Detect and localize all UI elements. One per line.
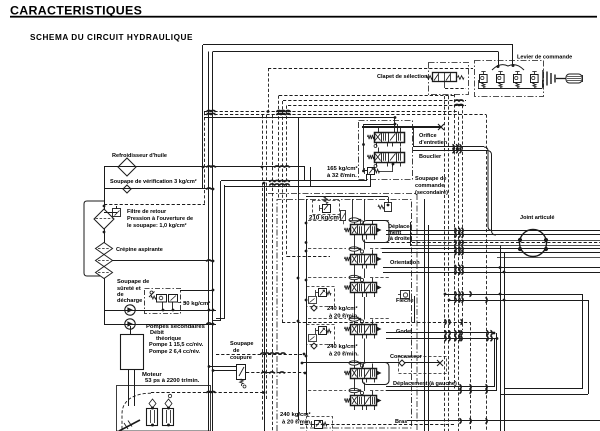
svg-text:Refroidisseur d'huile: Refroidisseur d'huile bbox=[112, 153, 167, 159]
svg-text:Crépine aspirante: Crépine aspirante bbox=[116, 247, 163, 253]
svg-text:(secondaire): (secondaire) bbox=[415, 190, 448, 196]
svg-text:Soupape de: Soupape de bbox=[415, 176, 446, 182]
svg-text:53 ps à 2200 tr/min.: 53 ps à 2200 tr/min. bbox=[145, 378, 200, 384]
svg-text:Orientation: Orientation bbox=[390, 260, 420, 266]
svg-text:à 20 ℓ/min.: à 20 ℓ/min. bbox=[329, 314, 359, 320]
svg-text:le soupape: 1,0 kg/cm²: le soupape: 1,0 kg/cm² bbox=[127, 222, 187, 229]
svg-text:240 kg/cm²: 240 kg/cm² bbox=[280, 411, 310, 418]
svg-text:240 kg/cm²: 240 kg/cm² bbox=[327, 305, 357, 312]
svg-text:Bouclier: Bouclier bbox=[419, 154, 442, 160]
svg-text:Levier de commande: Levier de commande bbox=[517, 55, 572, 61]
svg-text:Joint articulé: Joint articulé bbox=[520, 215, 555, 221]
svg-text:Concasseur: Concasseur bbox=[390, 354, 423, 360]
svg-text:de: de bbox=[233, 348, 239, 354]
svg-text:Orifice: Orifice bbox=[419, 133, 437, 139]
svg-text:30 kg/cm²: 30 kg/cm² bbox=[183, 300, 210, 307]
svg-text:décharge: décharge bbox=[117, 298, 142, 304]
svg-text:(à droite): (à droite) bbox=[388, 236, 412, 242]
svg-text:commande: commande bbox=[415, 183, 444, 189]
svg-text:coupure: coupure bbox=[230, 355, 252, 361]
svg-text:CARACTERISTIQUES: CARACTERISTIQUES bbox=[10, 4, 142, 18]
svg-text:Soupape de vérification 3 kg/c: Soupape de vérification 3 kg/cm² bbox=[110, 178, 197, 185]
svg-text:à 20 ℓ/min.: à 20 ℓ/min. bbox=[329, 352, 359, 358]
svg-text:240 kg/cm²: 240 kg/cm² bbox=[327, 343, 357, 350]
svg-text:Filtre de retour: Filtre de retour bbox=[127, 209, 167, 215]
svg-text:165 kg/cm²: 165 kg/cm² bbox=[327, 165, 357, 172]
svg-text:Pompe 1 15,5 cc/rév.: Pompe 1 15,5 cc/rév. bbox=[149, 342, 204, 348]
svg-text:Clapet de sélection: Clapet de sélection bbox=[377, 74, 428, 80]
svg-text:SCHEMA DU CIRCUIT HYDRAULIQ: SCHEMA DU CIRCUIT HYDRAULIQUE bbox=[30, 33, 193, 42]
svg-text:Soupape: Soupape bbox=[230, 341, 253, 347]
svg-text:Soupape de: Soupape de bbox=[117, 279, 149, 285]
svg-text:à 32 ℓ/min.: à 32 ℓ/min. bbox=[327, 173, 357, 179]
svg-text:Pompe 2 6,4 cc/rév.: Pompe 2 6,4 cc/rév. bbox=[149, 349, 201, 355]
svg-text:d'entretien: d'entretien bbox=[419, 140, 448, 146]
svg-text:Pression à l'ouverture de: Pression à l'ouverture de bbox=[127, 216, 193, 222]
